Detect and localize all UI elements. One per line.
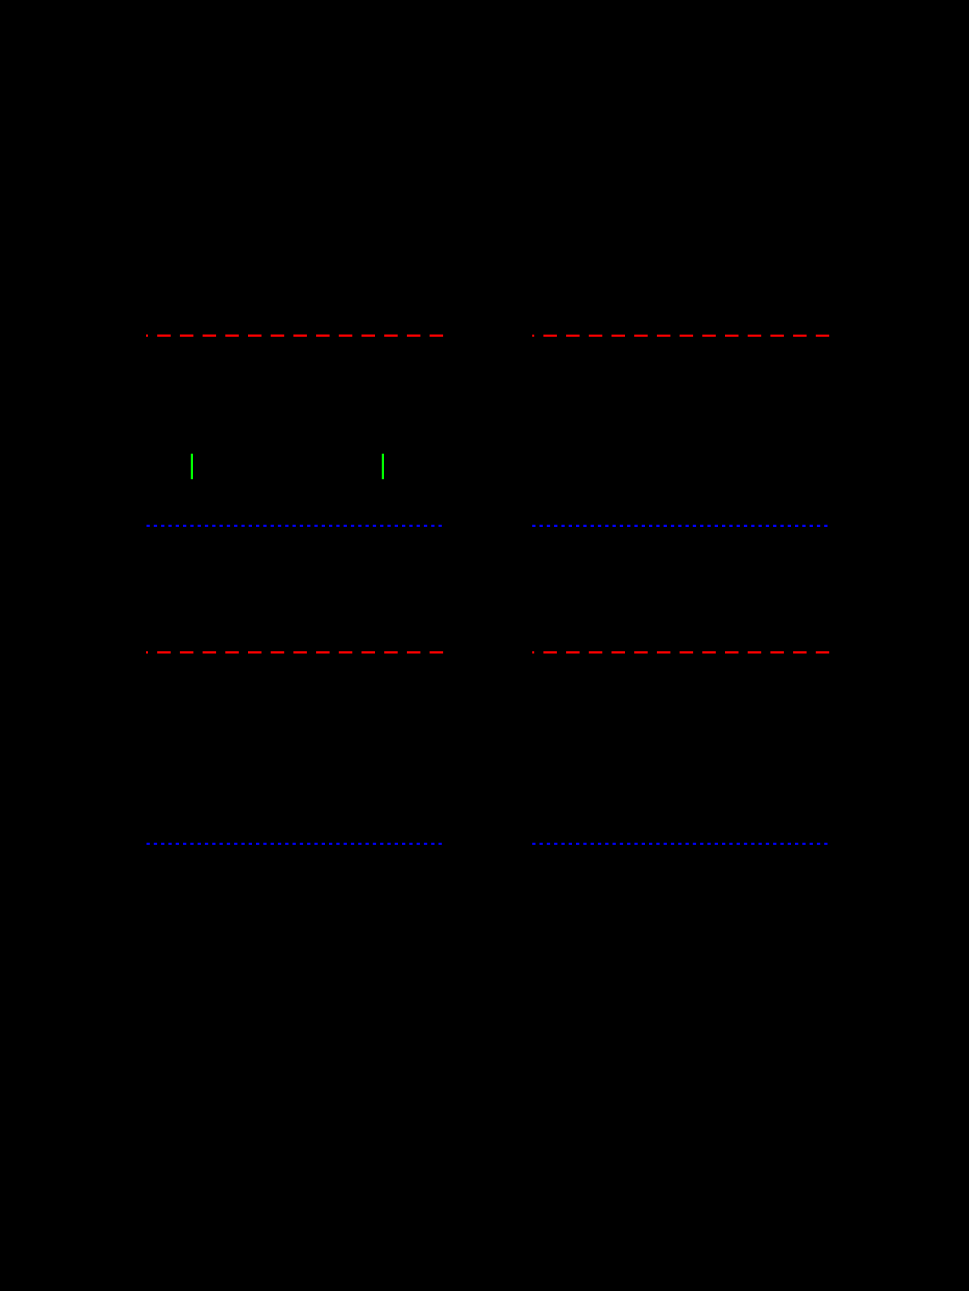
- green vertical marker 2: [382, 454, 384, 480]
- bottom-right blue dotted min line: [532, 843, 828, 845]
- top-right blue dotted min line: [532, 525, 828, 527]
- top-left blue dotted min line: [147, 525, 444, 527]
- top-left red dashed max line: [146, 335, 444, 337]
- bottom-left red dashed max line: [146, 651, 444, 653]
- green vertical marker 1: [191, 454, 193, 480]
- top-right red dashed max line: [532, 335, 829, 337]
- bottom-right red dashed max line: [532, 651, 829, 653]
- bottom-left blue dotted min line: [147, 843, 444, 845]
